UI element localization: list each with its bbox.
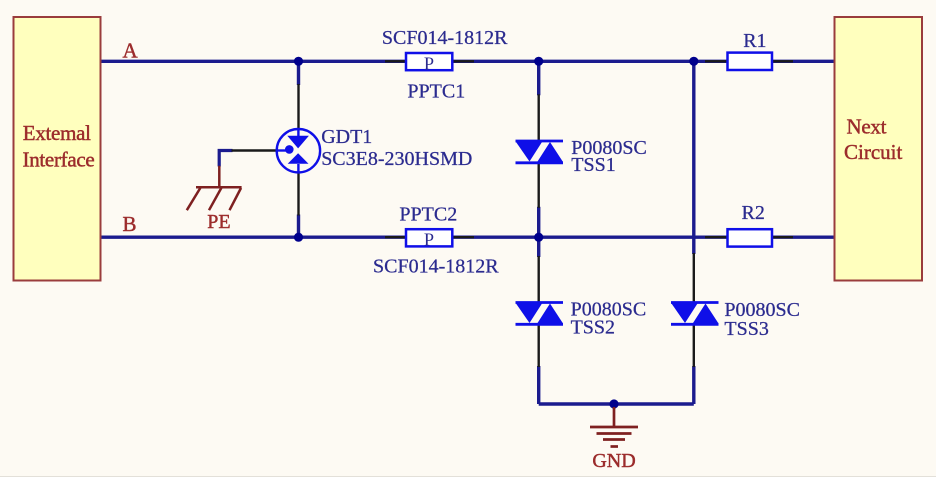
svg-text:R2: R2 (742, 202, 765, 224)
svg-text:P: P (424, 230, 434, 250)
svg-text:GND: GND (592, 450, 635, 472)
svg-text:TSS1: TSS1 (571, 154, 615, 176)
svg-text:TSS3: TSS3 (724, 318, 768, 340)
svg-text:SC3E8-230HSMD: SC3E8-230HSMD (321, 148, 472, 170)
svg-text:SCF014-1812R: SCF014-1812R (373, 255, 499, 277)
svg-text:SCF014-1812R: SCF014-1812R (382, 27, 508, 49)
svg-text:PPTC1: PPTC1 (407, 81, 465, 103)
svg-text:TSS2: TSS2 (571, 317, 615, 339)
svg-text:PE: PE (207, 211, 230, 233)
svg-text:B: B (123, 212, 137, 236)
svg-text:Circuit: Circuit (844, 140, 902, 164)
svg-text:R1: R1 (743, 30, 766, 52)
svg-text:Extemal: Extemal (23, 121, 91, 145)
svg-text:GDT1: GDT1 (321, 126, 372, 148)
svg-text:A: A (123, 39, 139, 63)
svg-text:Next: Next (847, 114, 887, 138)
svg-text:PPTC2: PPTC2 (399, 203, 457, 225)
svg-text:P: P (424, 53, 434, 73)
svg-text:Interface: Interface (23, 147, 95, 171)
